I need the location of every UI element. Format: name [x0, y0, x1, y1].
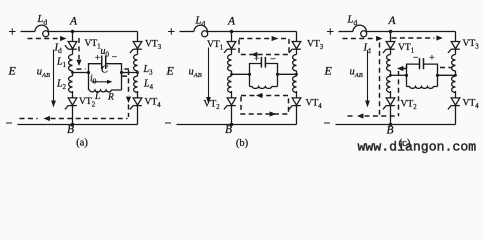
dashed wire right of tank (c) — [440, 67, 453, 69]
inductor L (tank bottom coil) — [250, 87, 278, 89]
svg-text:−: − — [112, 52, 118, 63]
node (left leg tap) — [71, 71, 74, 74]
svg-text:R: R — [107, 93, 114, 103]
thyristor VT1 gate (a) — [65, 45, 68, 49]
wire (load right tap) — [122, 72, 138, 74]
arrow left bottom (c) — [357, 113, 363, 118]
svg-text:+: + — [254, 54, 259, 64]
svg-text:−: − — [413, 52, 419, 63]
voltage arrow uAB (b) — [208, 48, 210, 98]
node (left leg tap) — [230, 73, 233, 76]
svg-text:A: A — [388, 15, 397, 27]
node (right leg tap) — [136, 71, 139, 74]
dashed wire Id path top (c) — [343, 38, 375, 40]
wire (tank top + sides) — [407, 64, 438, 86]
capacitor C plates — [261, 57, 265, 68]
node (right leg tap) — [295, 73, 298, 76]
voltage arrow uAB (c) — [367, 51, 369, 102]
current i0 arrow — [92, 81, 110, 83]
circuit (a) bridge skeleton — [6, 25, 142, 126]
svg-text:+: + — [95, 53, 100, 63]
svg-text:(b): (b) — [236, 138, 249, 149]
dashed wire (bottom return) — [51, 118, 128, 120]
capacitor C plates — [420, 58, 424, 69]
node (left leg tap) — [389, 74, 392, 77]
arrow Id right — [60, 36, 66, 41]
svg-text:A: A — [227, 16, 236, 28]
inductor L (tank bottom coil) — [407, 87, 438, 89]
arrow left on bottom loop — [256, 93, 262, 98]
dashed wire A to VT3 commutation (c) — [392, 37, 435, 39]
thyristor VT1 gate (b) — [224, 49, 227, 53]
arrow Id right (c) — [376, 36, 382, 41]
svg-text:www.diangon.com: www.diangon.com — [358, 140, 477, 155]
svg-text:E: E — [324, 64, 333, 78]
dashed wire Id path (top) — [28, 38, 60, 40]
node (tank left junction) — [248, 73, 251, 76]
svg-text:i0: i0 — [90, 74, 97, 86]
node (tank right junction) — [436, 74, 439, 77]
wire (load right tap) — [278, 73, 297, 75]
wire (load left tap) — [73, 72, 89, 74]
node (tank right junction) — [276, 73, 279, 76]
svg-text:B: B — [225, 124, 232, 136]
dashed wire Id down-path left of leg (c) — [379, 43, 381, 116]
dashed wire beside VT2 (c) — [398, 71, 400, 116]
voltage arrow uAB — [53, 50, 55, 102]
dashed wire bottom (c) — [365, 115, 399, 117]
svg-text:+: + — [429, 54, 434, 64]
arrow down beside VT1 — [76, 60, 81, 66]
arrow into leg from tank (c) — [397, 66, 403, 71]
wire (tank top + sides) — [89, 64, 122, 90]
node (tank left junction) — [405, 74, 408, 77]
arrow down right of tank — [126, 97, 131, 103]
svg-text:B: B — [387, 125, 394, 137]
arrow right on bottom loop — [270, 111, 276, 116]
node (tank right junction) — [120, 71, 123, 74]
svg-text:B: B — [67, 124, 74, 136]
dashed wire (down to bottom) — [128, 105, 130, 118]
circuit (b) bridge skeleton — [165, 25, 301, 126]
inductor L (tank bottom coil) — [89, 90, 122, 92]
dashed wire (short jog to load) — [77, 68, 86, 70]
node (right leg tap) — [454, 74, 457, 77]
arrow right on top loop — [272, 36, 278, 41]
dashed commutation loop (top) — [239, 39, 289, 55]
dashed wire (beside VT1) — [78, 38, 80, 59]
arrow left on top loop — [251, 52, 257, 57]
svg-text:C: C — [101, 65, 109, 76]
svg-text:−: − — [270, 54, 276, 65]
node (tank left junction) — [87, 71, 90, 74]
wire (load left tap) — [391, 74, 407, 76]
arrow left bottom return — [44, 116, 50, 121]
circuit (c) load tank — [389, 58, 457, 88]
circuit (a) load tank — [71, 56, 139, 92]
svg-text:L: L — [94, 92, 100, 102]
arrow right toward VT3 (c) — [436, 35, 442, 40]
circuit (c) bridge skeleton — [324, 25, 460, 126]
svg-text:A: A — [69, 16, 78, 28]
wire (tank top + sides) — [250, 64, 278, 87]
wire (load right tap) — [438, 74, 456, 76]
thyristor VT1 gate (c) — [383, 49, 386, 53]
circuit (b) load tank — [230, 57, 298, 89]
svg-text:(a): (a) — [76, 137, 88, 148]
wire (load left tap) — [232, 73, 250, 75]
svg-text:E: E — [8, 64, 17, 78]
dashed wire (right of tank) — [122, 69, 129, 96]
svg-text:E: E — [166, 64, 175, 78]
capacitor C plates — [102, 56, 106, 70]
dashed commutation loop (bottom) — [241, 96, 289, 115]
